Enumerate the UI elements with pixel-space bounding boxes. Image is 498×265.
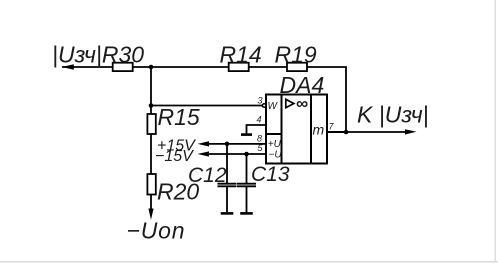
- svg-text:4: 4: [257, 114, 262, 124]
- svg-text:R19: R19: [275, 42, 317, 68]
- svg-text:C13: C13: [251, 163, 290, 186]
- svg-text:R15: R15: [158, 104, 200, 130]
- svg-text:DA4: DA4: [280, 72, 325, 98]
- svg-text:3: 3: [258, 95, 263, 105]
- svg-text:+U: +U: [268, 139, 282, 150]
- svg-text:C12: C12: [188, 164, 227, 187]
- svg-text:−U: −U: [269, 150, 283, 161]
- svg-text:−15V: −15V: [155, 148, 194, 165]
- svg-text:R14: R14: [220, 42, 262, 68]
- svg-text:m: m: [313, 122, 325, 138]
- svg-text:7: 7: [329, 122, 335, 132]
- svg-text:W: W: [268, 101, 279, 112]
- svg-text:|Uзч|R30: |Uзч|R30: [52, 42, 144, 68]
- svg-text:−Uon: −Uon: [127, 218, 186, 244]
- svg-text:8: 8: [257, 134, 262, 144]
- svg-text:K |Uзч|: K |Uзч|: [357, 102, 429, 128]
